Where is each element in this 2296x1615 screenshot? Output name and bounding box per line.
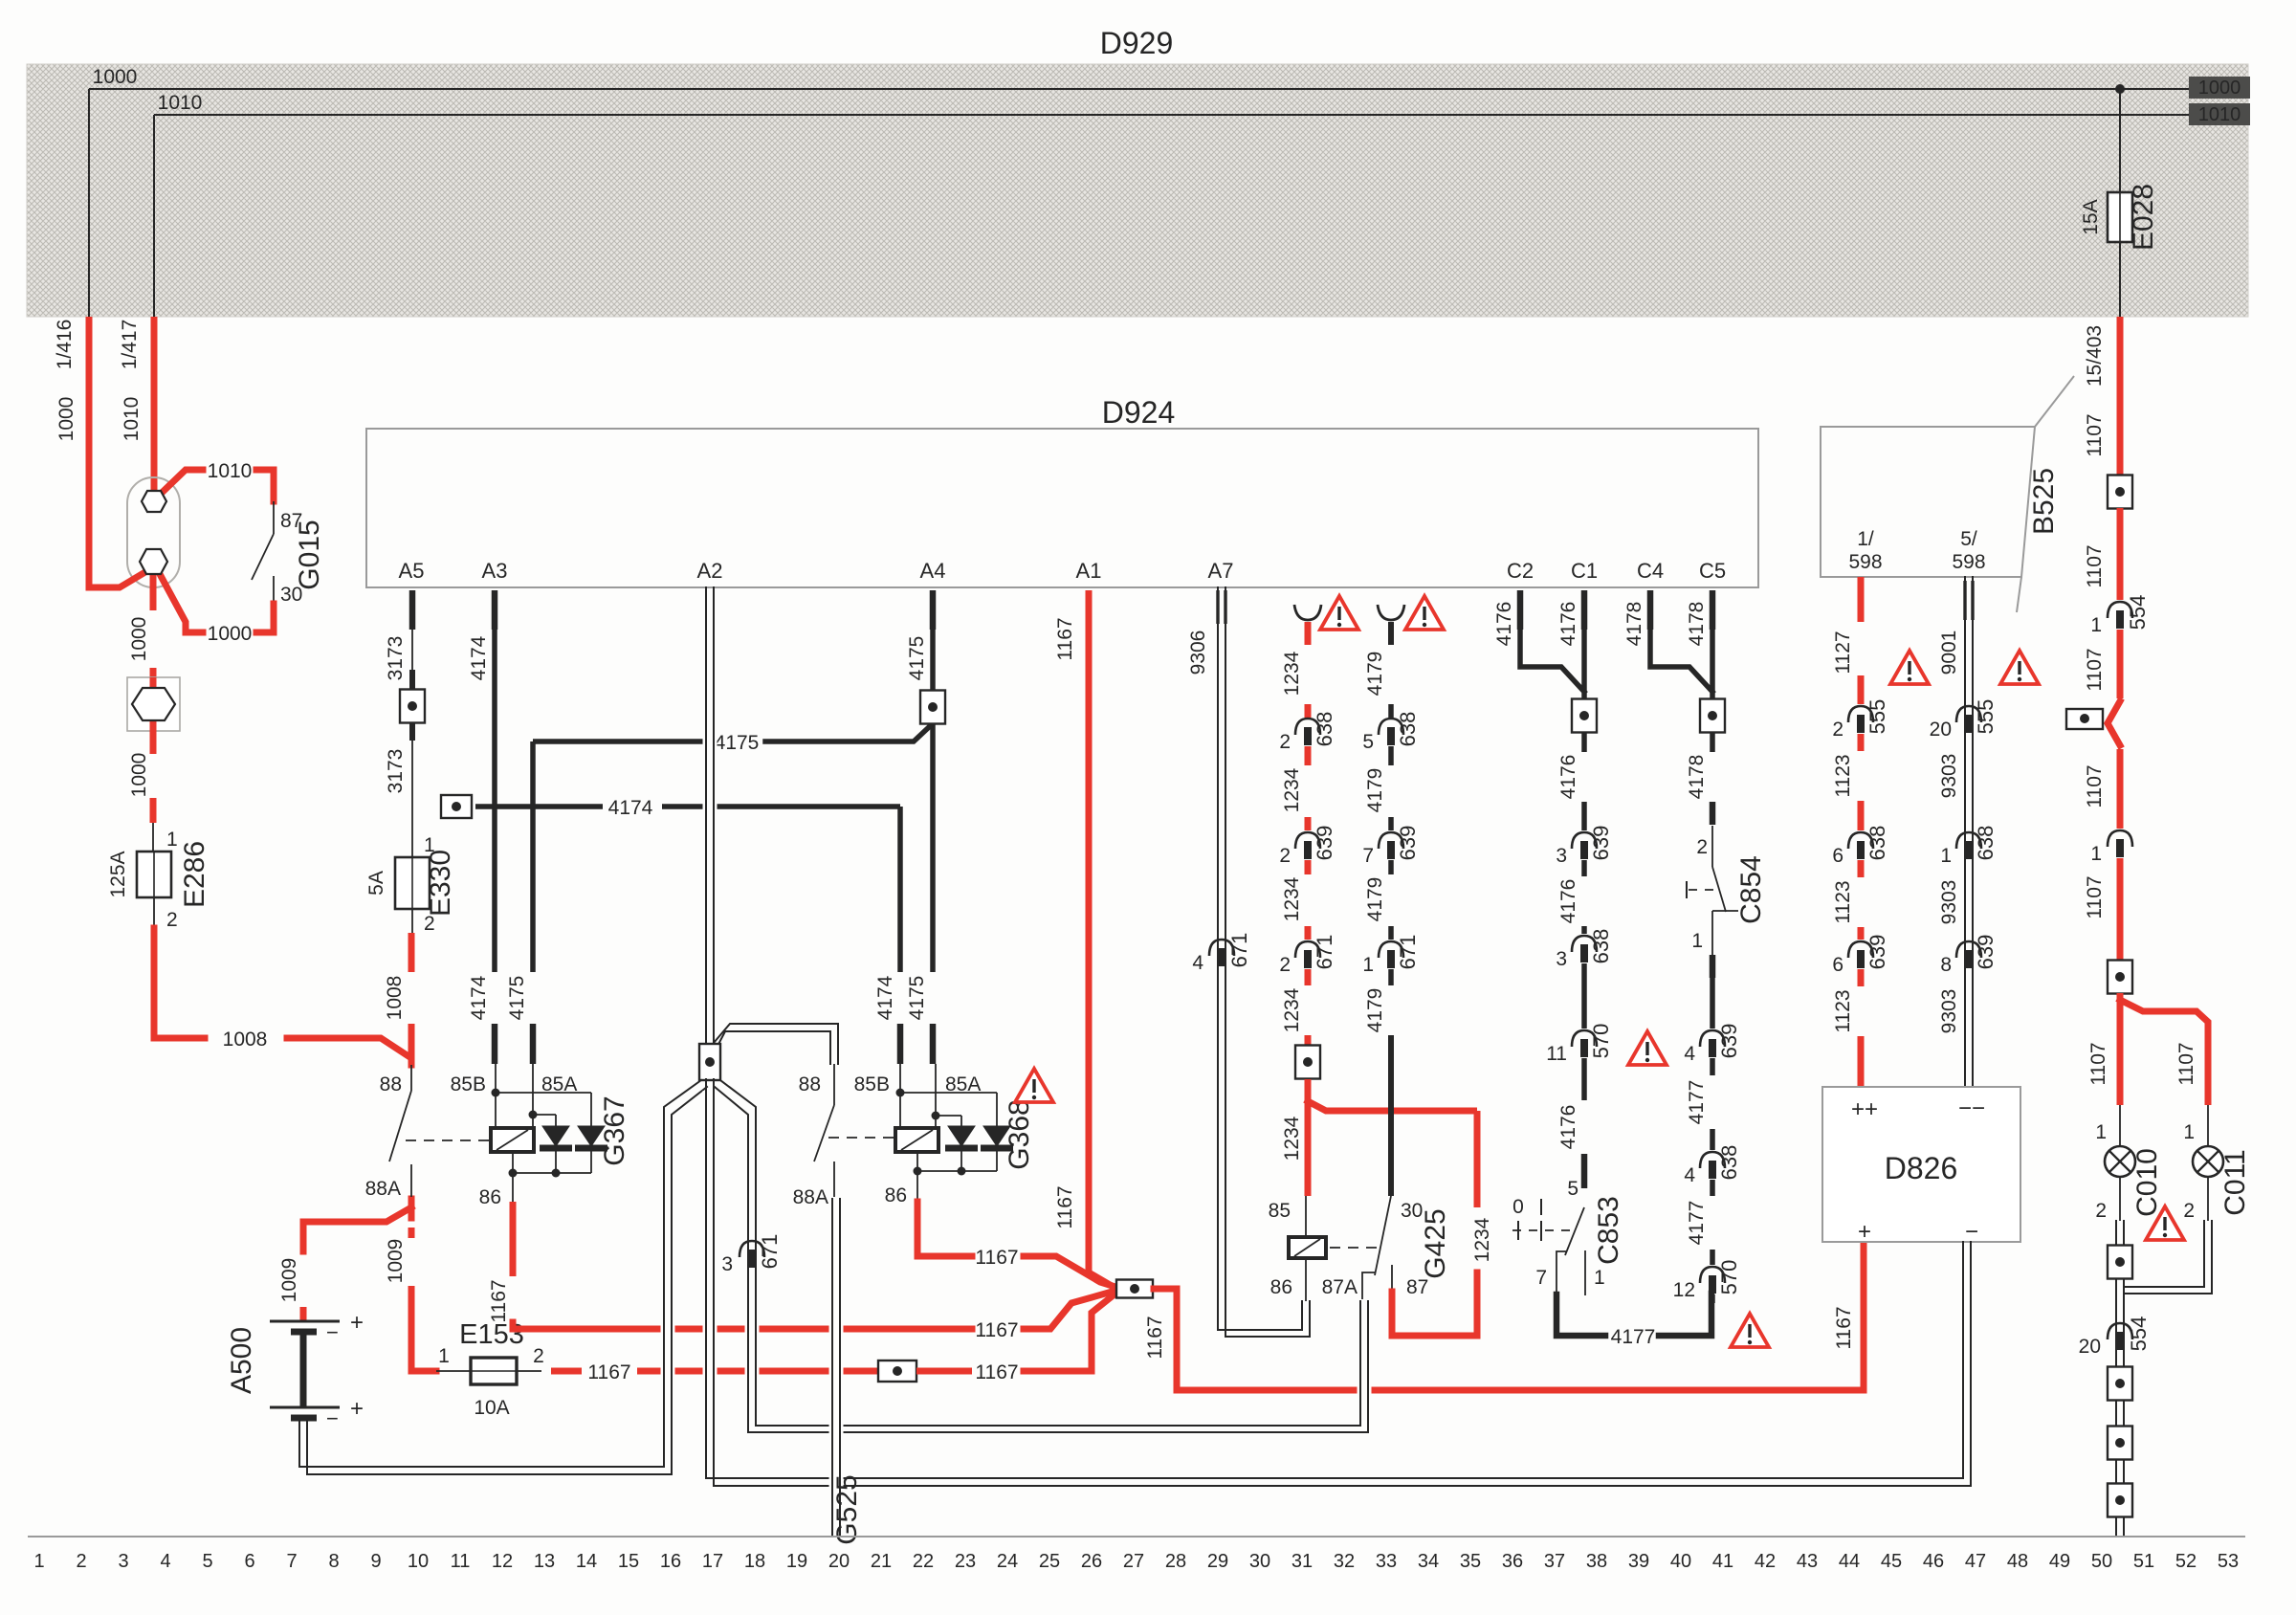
svg-text:4177: 4177: [1686, 1201, 1708, 1246]
fuse E286 125A: [153, 852, 155, 897]
svg-text:1167: 1167: [1054, 617, 1076, 660]
svg-text:27: 27: [1123, 1551, 1144, 1572]
svg-text:49: 49: [2049, 1551, 2070, 1572]
svg-text:1123: 1123: [1832, 989, 1854, 1032]
svg-text:3: 3: [118, 1551, 128, 1572]
wire 1167 from E153: [551, 1368, 582, 1375]
svg-text:−: −: [326, 1320, 339, 1344]
connector 6 / 639: [1848, 941, 1873, 958]
svg-text:4179: 4179: [1364, 652, 1386, 697]
svg-text:E028: E028: [2128, 184, 2159, 251]
wire 3173 from A5: [409, 590, 416, 630]
svg-text:638: 638: [1313, 712, 1336, 747]
pin 85A wire of G368: [935, 1064, 937, 1128]
svg-text:A500: A500: [226, 1327, 257, 1394]
svg-text:10: 10: [408, 1551, 429, 1572]
svg-text:3: 3: [1556, 948, 1567, 970]
svg-text:1107: 1107: [2084, 648, 2106, 691]
svg-text:87: 87: [280, 510, 302, 532]
connector 4 / 639: [1700, 1030, 1725, 1047]
svg-text:4: 4: [160, 1551, 170, 1572]
wire 1167 from A1: [1086, 590, 1093, 1261]
svg-text:88A: 88A: [365, 1178, 401, 1200]
fork to lamps C010 / C011: [2117, 993, 2124, 1105]
wire 9001 from B525 5/598: [1962, 579, 1976, 1083]
switch blade G015: [252, 534, 274, 580]
svg-text:5: 5: [1362, 731, 1374, 753]
svg-text:85B: 85B: [451, 1073, 486, 1095]
wire 4178 from C5: [1710, 590, 1716, 630]
svg-text:1: 1: [2090, 843, 2102, 865]
connector on 3173: [400, 690, 425, 723]
svg-text:4176: 4176: [1557, 602, 1579, 647]
svg-text:3: 3: [1556, 845, 1567, 867]
svg-text:36: 36: [1502, 1551, 1523, 1572]
svg-text:1123: 1123: [1832, 880, 1854, 923]
wire 1/416 (1000) from D929: [86, 317, 93, 590]
svg-text:30: 30: [1401, 1200, 1423, 1222]
svg-text:8: 8: [1940, 954, 1952, 976]
connector 1 / 554: [2108, 602, 2132, 618]
wire 1234 harness breakout: [1294, 605, 1321, 620]
coil G425: [1289, 1237, 1326, 1258]
wire 4174 from A3: [492, 590, 498, 630]
blade C853: [1565, 1207, 1584, 1255]
svg-text:87: 87: [1406, 1276, 1428, 1298]
svg-text:45: 45: [1881, 1551, 1902, 1572]
svg-text:C1: C1: [1571, 559, 1598, 583]
fuse E153 10A: [411, 1363, 436, 1371]
svg-text:4176: 4176: [1557, 1105, 1579, 1150]
svg-text:−−: −−: [1958, 1095, 1985, 1121]
pin 86 junction of G368: [916, 1152, 918, 1171]
connector 2 / 638: [1295, 719, 1320, 735]
svg-text:4179: 4179: [1364, 768, 1386, 813]
net label box 1010: [2189, 103, 2250, 125]
connector on 4174: [441, 795, 472, 818]
connector on A2 wire: [699, 1044, 720, 1080]
svg-text:86: 86: [1270, 1276, 1292, 1298]
svg-text:14: 14: [576, 1551, 597, 1572]
svg-text:21: 21: [871, 1551, 892, 1572]
wire 4176 from C2: [1517, 590, 1524, 630]
svg-text:3173: 3173: [385, 636, 407, 681]
svg-text:1167: 1167: [1833, 1306, 1855, 1349]
fuse E028 15A: [2119, 192, 2121, 242]
connector 11 / 570: [1572, 1030, 1597, 1047]
wire 4175 down to G367 85A: [530, 741, 536, 972]
connector on 4176: [1572, 699, 1597, 733]
warning triangle near lamps: [2146, 1206, 2184, 1240]
svg-text:598: 598: [1952, 551, 1985, 573]
svg-text:E286: E286: [179, 841, 210, 908]
svg-text:4: 4: [1684, 1164, 1695, 1186]
wire 4179 to contact 30: [1388, 1035, 1394, 1196]
svg-text:671: 671: [758, 1234, 782, 1270]
svg-text:639: 639: [1717, 1024, 1741, 1059]
svg-text:3: 3: [721, 1253, 733, 1275]
actuation link G368: [828, 1137, 894, 1139]
pin 86 junction of G367: [512, 1152, 514, 1173]
connector 5 / 638: [1379, 719, 1403, 735]
svg-text:1: 1: [1594, 1267, 1605, 1289]
svg-text:87A: 87A: [1322, 1276, 1358, 1298]
svg-text:1000: 1000: [93, 66, 138, 88]
svg-text:639: 639: [1865, 935, 1889, 970]
svg-text:29: 29: [1207, 1551, 1228, 1572]
svg-text:1000: 1000: [128, 617, 150, 662]
svg-text:1123: 1123: [1832, 754, 1854, 797]
actuation link G367: [406, 1139, 489, 1141]
C011 ground branch: [2137, 1223, 2208, 1291]
svg-text:13: 13: [534, 1551, 555, 1572]
svg-text:2: 2: [2095, 1200, 2107, 1222]
svg-text:G367: G367: [599, 1095, 630, 1165]
svg-text:A3: A3: [482, 559, 508, 583]
svg-text:2: 2: [1279, 845, 1291, 867]
svg-text:1127: 1127: [1832, 631, 1854, 674]
wire 1010 (inside D929): [154, 114, 2189, 116]
wire from 1000 to fuse E028: [2119, 89, 2121, 192]
svg-text:50: 50: [2091, 1551, 2112, 1572]
diode 1 of G367: [555, 1115, 557, 1126]
svg-text:D929: D929: [1100, 26, 1174, 60]
svg-text:671: 671: [1396, 935, 1420, 970]
connector 12 / 570: [1700, 1267, 1725, 1283]
svg-text:42: 42: [1755, 1551, 1776, 1572]
svg-text:1167: 1167: [975, 1361, 1018, 1383]
connector on 1234: [1295, 1046, 1320, 1079]
svg-text:7: 7: [1535, 1267, 1547, 1289]
svg-text:1000: 1000: [55, 397, 77, 442]
svg-text:1/: 1/: [1857, 528, 1874, 550]
svg-text:7: 7: [286, 1551, 297, 1572]
ground wire 554 from lamps: [2113, 1223, 2128, 1535]
connector 1 / 638: [1956, 832, 1981, 849]
svg-text:C010: C010: [2131, 1148, 2163, 1217]
svg-text:1234: 1234: [1281, 651, 1303, 696]
wire 1167 from G368 pin 86: [917, 1202, 972, 1256]
svg-text:1234: 1234: [1281, 876, 1303, 921]
svg-text:639: 639: [1313, 826, 1336, 861]
wire 1127 from B525 1/598: [1858, 577, 1865, 622]
svg-text:52: 52: [2175, 1551, 2197, 1572]
svg-text:1: 1: [2183, 1121, 2195, 1143]
svg-text:2: 2: [424, 913, 435, 935]
svg-text:28: 28: [1165, 1551, 1186, 1572]
svg-text:15A: 15A: [2080, 199, 2102, 234]
wire 1008 from E286 to relay G367: [154, 928, 205, 1038]
wire 1234 to G425: [1305, 1079, 1312, 1196]
terminal bolt upper: [142, 491, 166, 512]
svg-text:1234: 1234: [1281, 987, 1303, 1032]
A2 right branch to G425 87A: [728, 1092, 1364, 1428]
svg-text:570: 570: [1589, 1024, 1613, 1059]
svg-text:D924: D924: [1102, 395, 1176, 430]
svg-text:85B: 85B: [854, 1073, 890, 1095]
stub connector on 1107: [2108, 701, 2120, 745]
svg-text:1107: 1107: [2175, 1042, 2197, 1085]
svg-text:38: 38: [1586, 1551, 1607, 1572]
svg-text:−: −: [1965, 1219, 1978, 1245]
wire 1167 to module D826: [1154, 1242, 1864, 1390]
svg-text:2: 2: [1279, 731, 1291, 753]
svg-text:5A: 5A: [365, 871, 387, 896]
svg-text:E330: E330: [425, 850, 456, 917]
svg-text:0: 0: [1512, 1196, 1524, 1218]
svg-text:638: 638: [1865, 826, 1889, 861]
svg-text:1167: 1167: [1054, 1185, 1076, 1228]
svg-text:C854: C854: [1735, 855, 1767, 924]
svg-text:639: 639: [1589, 826, 1613, 861]
svg-text:17: 17: [702, 1551, 723, 1572]
svg-text:44: 44: [1839, 1551, 1860, 1572]
svg-text:1010: 1010: [158, 92, 203, 114]
warning triangle near G368: [1015, 1069, 1053, 1102]
svg-text:5/: 5/: [1960, 528, 1977, 550]
svg-text:32: 32: [1334, 1551, 1355, 1572]
svg-text:4174: 4174: [468, 975, 490, 1020]
svg-text:19: 19: [786, 1551, 807, 1572]
wire 4177 below C854: [1710, 955, 1716, 978]
svg-text:1000: 1000: [128, 753, 150, 798]
net label box 1000: [2189, 77, 2250, 99]
svg-text:43: 43: [1797, 1551, 1818, 1572]
svg-text:1009: 1009: [385, 1239, 407, 1284]
svg-text:1: 1: [33, 1551, 44, 1572]
svg-text:A5: A5: [399, 559, 425, 583]
ground wire G525: [829, 1199, 844, 1535]
svg-text:1008: 1008: [223, 1029, 268, 1051]
wire 1000 from switch 30: [256, 604, 274, 632]
svg-text:598: 598: [1848, 551, 1882, 573]
svg-text:555: 555: [1865, 699, 1889, 735]
wire 9306 from A7: [1222, 589, 1306, 1334]
svg-text:1167: 1167: [1144, 1316, 1166, 1359]
connector 2 / 639: [1295, 832, 1320, 849]
connector 6 / 638: [1848, 832, 1873, 849]
svg-text:20: 20: [828, 1551, 850, 1572]
svg-text:35: 35: [1460, 1551, 1481, 1572]
svg-text:6: 6: [1832, 845, 1843, 867]
battery terminal G015: [127, 477, 180, 587]
wire 1000 below terminal: [150, 575, 157, 610]
svg-text:4176: 4176: [1557, 879, 1579, 924]
svg-text:1010: 1010: [208, 460, 253, 482]
svg-text:1: 1: [1940, 845, 1952, 867]
svg-text:555: 555: [1974, 699, 1998, 735]
svg-text:125A: 125A: [107, 851, 129, 897]
svg-text:2: 2: [2183, 1200, 2195, 1222]
svg-text:1: 1: [2090, 614, 2102, 636]
wire 1/417 (1010) from D929: [151, 317, 158, 491]
svg-text:1107: 1107: [2084, 764, 2106, 807]
fuse E330 5A: [411, 857, 413, 909]
svg-text:26: 26: [1081, 1551, 1102, 1572]
svg-text:4174: 4174: [608, 797, 653, 819]
svg-text:4176: 4176: [1557, 755, 1579, 800]
svg-text:4175: 4175: [506, 976, 528, 1021]
svg-text:1: 1: [1362, 954, 1374, 976]
svg-text:4179: 4179: [1364, 988, 1386, 1033]
connector 3 / 638: [1572, 936, 1597, 952]
blade C854: [1711, 826, 1713, 867]
svg-text:1234: 1234: [1281, 1116, 1303, 1161]
svg-text:9001: 9001: [1938, 631, 1960, 675]
svg-text:51: 51: [2133, 1551, 2154, 1572]
coil G368: [895, 1128, 938, 1152]
svg-text:30: 30: [280, 584, 302, 606]
svg-text:1107: 1107: [2084, 413, 2106, 456]
svg-text:C5: C5: [1699, 559, 1726, 583]
coil G367: [491, 1128, 534, 1152]
svg-text:18: 18: [744, 1551, 765, 1572]
svg-text:C853: C853: [1593, 1196, 1624, 1265]
wire 4174 down to G368: [897, 807, 903, 972]
svg-text:1: 1: [438, 1345, 450, 1367]
svg-text:1000: 1000: [2198, 77, 2241, 99]
svg-text:31: 31: [1291, 1551, 1313, 1572]
diode 2 of G367: [590, 1093, 592, 1126]
svg-text:G425: G425: [1420, 1208, 1451, 1278]
actuation link G425: [1330, 1247, 1383, 1249]
svg-text:22: 22: [913, 1551, 934, 1572]
terminal bolt lower: [140, 549, 167, 574]
svg-text:4178: 4178: [1623, 602, 1645, 647]
svg-text:638: 638: [1396, 712, 1420, 747]
svg-text:88: 88: [380, 1073, 402, 1095]
svg-text:12: 12: [1673, 1279, 1695, 1301]
svg-text:11: 11: [451, 1551, 471, 1572]
diode 2 of G368: [996, 1093, 998, 1126]
svg-text:554: 554: [2126, 595, 2150, 631]
svg-text:2: 2: [76, 1551, 86, 1572]
pin 85B wire: [495, 1064, 497, 1128]
svg-text:40: 40: [1670, 1551, 1691, 1572]
svg-text:9303: 9303: [1938, 989, 1960, 1034]
svg-text:46: 46: [1923, 1551, 1944, 1572]
svg-text:88: 88: [799, 1073, 821, 1095]
svg-text:85A: 85A: [945, 1073, 981, 1095]
svg-text:37: 37: [1544, 1551, 1565, 1572]
connector 1 on 1107: [2108, 830, 2132, 847]
svg-text:638: 638: [1974, 826, 1998, 861]
svg-text:4174: 4174: [874, 975, 896, 1020]
svg-text:A2: A2: [697, 559, 723, 583]
svg-text:1107: 1107: [2084, 875, 2106, 918]
connector 3 / 639: [1572, 832, 1597, 849]
wire 1000 to fuse E286: [150, 731, 157, 754]
svg-text:+: +: [350, 1310, 364, 1336]
junction on wire 1000: [2115, 84, 2125, 94]
svg-text:30: 30: [1249, 1551, 1270, 1572]
connector 8 / 639: [1956, 941, 1981, 958]
svg-text:1008: 1008: [384, 976, 406, 1021]
svg-text:4: 4: [1192, 952, 1203, 974]
svg-text:15: 15: [618, 1551, 639, 1572]
svg-text:D826: D826: [1885, 1151, 1958, 1185]
wire 1008 from E330: [408, 933, 415, 972]
switch contact 87: [273, 501, 275, 534]
svg-text:A1: A1: [1076, 559, 1102, 583]
svg-text:20: 20: [1930, 719, 1952, 741]
wire 4177 from C853: [1556, 1294, 1605, 1336]
svg-text:9303: 9303: [1938, 880, 1960, 925]
svg-text:33: 33: [1376, 1551, 1397, 1572]
svg-text:7: 7: [1362, 845, 1374, 867]
connector 4 / 638: [1700, 1152, 1725, 1168]
svg-text:+: +: [350, 1396, 364, 1422]
connector on 4175: [920, 691, 945, 724]
svg-text:C011: C011: [2219, 1149, 2251, 1216]
svg-text:39: 39: [1628, 1551, 1649, 1572]
svg-text:11: 11: [1546, 1043, 1567, 1065]
connector B525: [1821, 427, 2035, 577]
connector 4 / 671 on 9306: [1209, 940, 1234, 956]
9306 to G425 pin 86: [1305, 1258, 1307, 1301]
svg-text:639: 639: [1396, 826, 1420, 861]
svg-text:4178: 4178: [1686, 602, 1708, 647]
svg-text:4: 4: [1684, 1043, 1695, 1065]
svg-text:1000: 1000: [208, 623, 253, 645]
svg-text:88A: 88A: [793, 1186, 828, 1208]
svg-text:20: 20: [2079, 1336, 2101, 1358]
svg-text:671: 671: [1313, 935, 1336, 970]
svg-text:5: 5: [1567, 1178, 1578, 1200]
svg-text:1167: 1167: [975, 1247, 1018, 1269]
svg-text:A7: A7: [1208, 559, 1234, 583]
svg-text:671: 671: [1227, 933, 1251, 968]
wire 4176 from C1: [1581, 590, 1588, 630]
svg-text:48: 48: [2007, 1551, 2028, 1572]
svg-text:86: 86: [479, 1186, 501, 1208]
svg-text:++: ++: [1851, 1096, 1878, 1122]
svg-text:4175: 4175: [906, 636, 928, 681]
wire 4179 harness breakout: [1378, 605, 1404, 620]
connector 20 / 554: [2108, 1323, 2132, 1339]
svg-text:9303: 9303: [1938, 754, 1960, 799]
svg-text:23: 23: [955, 1551, 976, 1572]
svg-text:−: −: [326, 1406, 339, 1430]
wire 1000 (inside D929): [89, 88, 2189, 90]
svg-text:B525: B525: [2028, 468, 2060, 535]
svg-text:+: +: [1858, 1219, 1871, 1245]
branch to relay G368 contact 88: [721, 1028, 834, 1062]
svg-text:85: 85: [1269, 1200, 1291, 1222]
svg-text:639: 639: [1974, 935, 1998, 970]
connector 1 / 671: [1379, 941, 1403, 958]
svg-text:1: 1: [2095, 1121, 2107, 1143]
pin 85A wire: [532, 1064, 534, 1128]
diode 1 of G368: [960, 1116, 962, 1126]
svg-text:9306: 9306: [1187, 631, 1209, 675]
svg-text:47: 47: [1965, 1551, 1986, 1572]
harness box D929: [27, 64, 2248, 317]
svg-text:8: 8: [328, 1551, 339, 1572]
svg-text:638: 638: [1589, 929, 1613, 964]
svg-text:34: 34: [1418, 1551, 1439, 1572]
svg-text:15/403: 15/403: [2084, 325, 2106, 387]
wire 4175 horizontal: [765, 727, 929, 741]
svg-text:G368: G368: [1004, 1099, 1035, 1169]
svg-text:86: 86: [885, 1184, 907, 1206]
svg-text:1167: 1167: [587, 1361, 630, 1383]
svg-text:C4: C4: [1637, 559, 1664, 583]
svg-text:1167: 1167: [975, 1319, 1018, 1341]
connector 2 / 671: [1295, 941, 1320, 958]
svg-text:638: 638: [1717, 1145, 1741, 1181]
svg-text:4175: 4175: [906, 976, 928, 1021]
